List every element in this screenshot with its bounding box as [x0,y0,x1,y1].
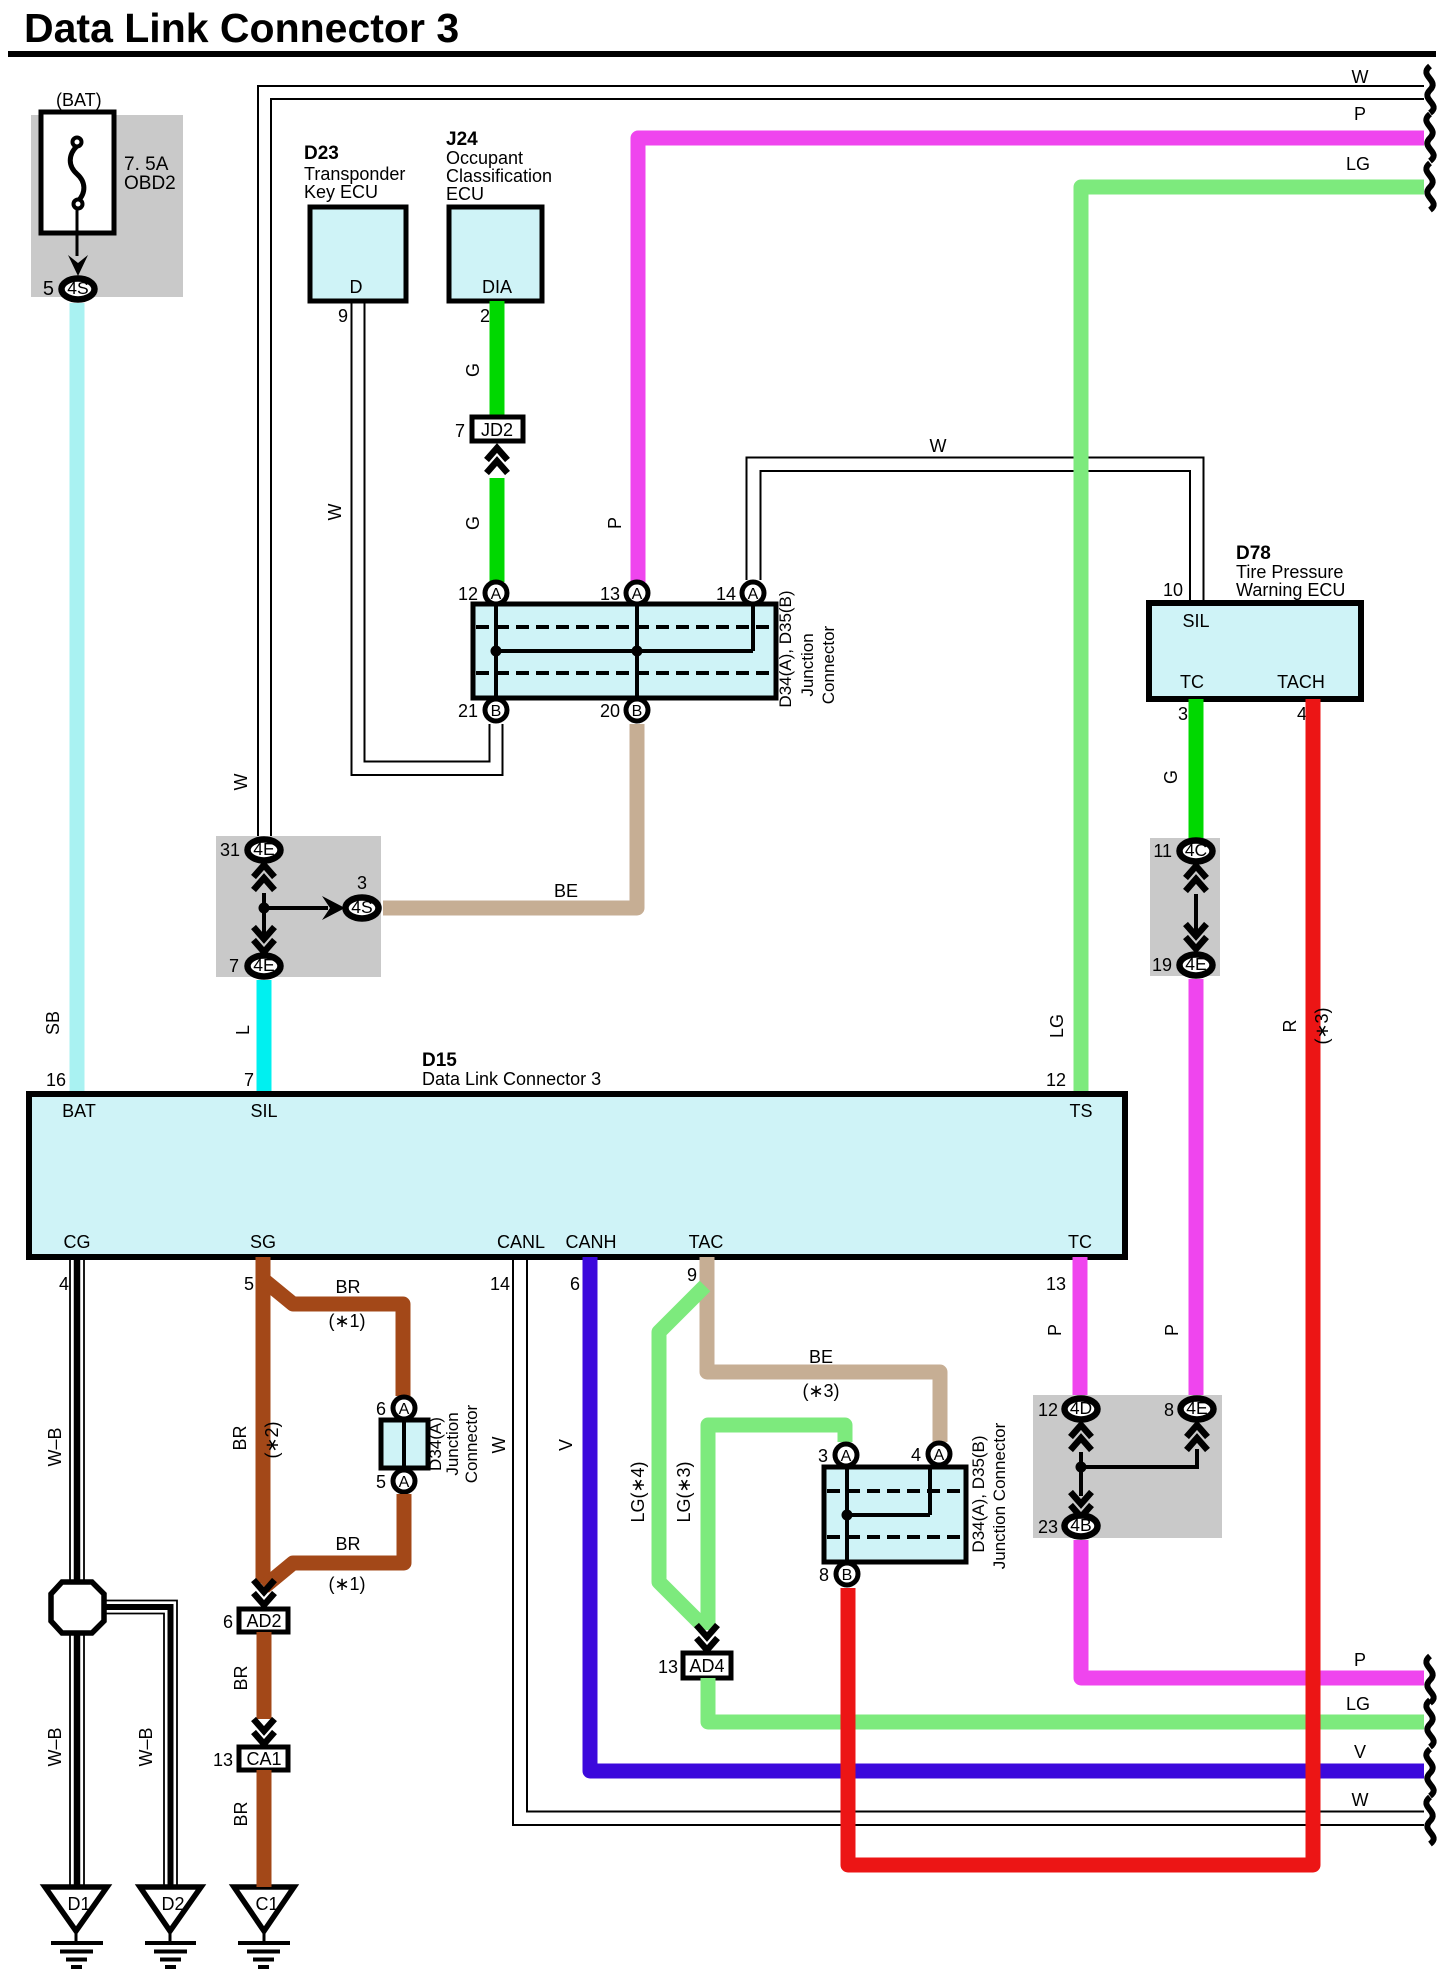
connector oval 4S pin 5 [62,279,95,300]
svg-text:TS: TS [1069,1101,1092,1121]
svg-text:10: 10 [1163,580,1183,600]
svg-text:12: 12 [1046,1070,1066,1090]
svg-text:Classification: Classification [446,166,552,186]
arrowhead down [68,255,88,276]
svg-text:3: 3 [357,873,367,893]
svg-text:5: 5 [244,1274,254,1294]
chevron arrows down to 4B [1071,1492,1092,1517]
svg-text:A: A [841,1448,852,1465]
continuation squiggle W top [1426,66,1433,113]
junction connector D34(A) small box [381,1420,428,1468]
connector oval 4E pin 7 [248,956,281,977]
gray connector box left (4E/4S/4E) [216,836,381,977]
internal wire horizontal with arrow to 4S [264,906,328,910]
junction connector D34(A) pin 6 A [393,1397,415,1419]
ground D2 [140,1887,201,1931]
svg-text:L: L [233,1025,253,1035]
wire SB (BAT to D15) [70,303,85,1094]
wire P (4E pin 19 down to 4E pin 8) [1189,979,1204,1396]
svg-text:6: 6 [570,1274,580,1294]
svg-text:6: 6 [376,1399,386,1419]
svg-text:4E: 4E [253,955,274,975]
connector oval 4B pin 23 [1065,1516,1098,1537]
svg-text:D: D [350,277,363,297]
svg-text:12: 12 [1038,1400,1058,1420]
wire BE (junction pin 20 B to connector 4S) [383,724,637,908]
svg-text:BE: BE [809,1347,833,1367]
svg-text:20: 20 [600,701,620,721]
svg-text:5: 5 [376,1472,386,1492]
svg-text:4D: 4D [1070,1398,1092,1418]
svg-text:TAC: TAC [689,1232,724,1252]
svg-text:BAT: BAT [62,1101,96,1121]
fuse element [70,146,84,201]
splice octagon [51,1582,104,1633]
wire W (junction pin 14 A to D78 pin 10, double line) [747,458,1204,604]
chevron arrows up below 4E [1187,1425,1208,1450]
svg-text:D1: D1 [67,1894,90,1914]
pin 20 B [626,699,648,721]
wire W (D23 pin 9 to junction pin 21 B, double line) [352,301,503,775]
connector oval 4E pin 8 [1181,1399,1214,1420]
svg-text:P: P [605,517,625,529]
continuation squiggle P top [1426,114,1433,161]
svg-text:D23: D23 [304,143,339,164]
svg-text:(∗3): (∗3) [1312,1007,1332,1044]
svg-text:Junction: Junction [798,633,817,696]
wire LG(*3) (junction pin 3 A to AD4) [708,1425,845,1630]
chevron arrows up [254,865,275,890]
wire fuse to connector 4S [76,209,79,256]
svg-text:7: 7 [229,956,239,976]
svg-text:Tire Pressure: Tire Pressure [1236,562,1343,582]
svg-text:B: B [842,1567,853,1584]
svg-text:Connector: Connector [462,1404,481,1483]
svg-text:LG: LG [1346,1694,1370,1714]
svg-text:A: A [399,1401,410,1418]
title underline [8,51,1436,57]
svg-text:LG: LG [1047,1014,1067,1038]
svg-text:BR: BR [231,1801,251,1826]
svg-text:A: A [399,1474,410,1491]
svg-text:D78: D78 [1236,543,1271,564]
svg-text:6: 6 [223,1612,233,1632]
svg-text:(∗3): (∗3) [802,1381,839,1401]
svg-text:4B: 4B [1070,1515,1091,1535]
svg-text:Junction: Junction [443,1412,462,1475]
svg-text:13: 13 [213,1750,233,1770]
svg-text:AD2: AD2 [246,1611,281,1631]
svg-text:A: A [632,586,643,603]
svg-text:4: 4 [911,1445,921,1465]
svg-text:4E: 4E [1185,954,1206,974]
svg-text:SB: SB [43,1011,63,1035]
wire P (D15 TC down to 4D pin 12) [1073,1257,1088,1396]
svg-text:JD2: JD2 [481,420,513,440]
svg-text:W: W [231,774,251,791]
svg-text:Key ECU: Key ECU [304,182,378,202]
svg-text:14: 14 [490,1274,510,1294]
pin 4 A [928,1443,950,1465]
continuation squiggle LG top [1426,163,1433,210]
pin 12 A [485,582,507,604]
svg-text:DIA: DIA [482,277,512,297]
internal wires [1079,1452,1083,1496]
svg-text:19: 19 [1152,955,1172,975]
svg-text:(∗2): (∗2) [262,1421,282,1458]
junction connector D34(A),D35(B) top [473,604,776,698]
svg-text:7: 7 [244,1070,254,1090]
svg-text:4S: 4S [67,278,88,298]
svg-text:Warning ECU: Warning ECU [1236,580,1345,600]
svg-text:8: 8 [819,1565,829,1585]
svg-text:LG(∗3): LG(∗3) [674,1461,694,1522]
svg-text:R: R [1280,1020,1300,1033]
svg-text:W: W [325,504,345,521]
svg-text:AD4: AD4 [689,1656,724,1676]
svg-text:4E: 4E [1186,1398,1207,1418]
svg-text:7. 5A: 7. 5A [124,154,169,175]
connector JD2 pin 7 [472,417,523,441]
svg-text:P: P [1354,104,1366,124]
continuation squiggle LG bottom [1426,1700,1433,1747]
wire L (4E pin 7 to D15 SIL) [257,980,272,1094]
svg-text:P: P [1162,1324,1182,1336]
svg-text:J24: J24 [446,129,478,150]
svg-text:TACH: TACH [1277,672,1325,692]
chevron arrows down to AD4 [697,1625,718,1650]
svg-text:Transponder: Transponder [304,164,405,184]
pin 14 A [742,582,764,604]
svg-text:9: 9 [338,306,348,326]
wire V (D15 CANH to right edge) [590,1257,1424,1771]
svg-text:G: G [1161,770,1181,784]
svg-text:7: 7 [455,421,465,441]
connector AD4 pin 13 [683,1653,731,1678]
chevron arrows down [1186,924,1207,949]
internal pin lines [845,1467,849,1562]
connector oval 4E pin 19 [1180,955,1213,976]
svg-text:B: B [491,703,502,720]
connector oval 4C pin 11 [1180,841,1213,862]
svg-text:OBD2: OBD2 [124,173,176,194]
svg-text:C1: C1 [255,1894,278,1914]
node junction dot [259,903,270,914]
gray connector box right (4C/4E) [1150,838,1220,976]
wire G (J24 pin 2 to JD2) [490,301,505,417]
fuse 7.5A OBD2 body [41,112,114,233]
svg-text:4S: 4S [351,897,372,917]
ground C1 [234,1887,294,1931]
svg-text:(∗1): (∗1) [328,1311,365,1331]
svg-text:V: V [556,1439,576,1451]
svg-text:W: W [1352,1790,1369,1810]
svg-text:31: 31 [220,840,240,860]
ground D1 [45,1887,107,1931]
svg-text:16: 16 [46,1070,66,1090]
svg-text:4E: 4E [253,839,274,859]
dashed internal lines [476,625,773,629]
svg-text:A: A [491,586,502,603]
connector CA1 pin 13 [239,1747,288,1770]
svg-text:Data Link Connector 3: Data Link Connector 3 [24,5,459,51]
svg-text:V: V [1354,1742,1366,1762]
fuse block shading [31,115,183,297]
connector AD2 pin 6 [239,1609,288,1632]
chevron arrows up [1186,866,1207,891]
wire P (top, right edge to junction pin 13) [638,138,1424,596]
svg-text:2: 2 [480,306,490,326]
chevron arrows up below 4D [1071,1425,1092,1450]
svg-text:W: W [930,436,947,456]
svg-text:14: 14 [716,584,736,604]
svg-text:A: A [934,1447,945,1464]
svg-text:Junction Connector: Junction Connector [990,1422,1009,1569]
svg-text:12: 12 [458,584,478,604]
svg-text:23: 23 [1038,1517,1058,1537]
gray connector box bottom right (4D/4E/4B) [1033,1395,1222,1538]
svg-text:Data Link Connector 3: Data Link Connector 3 [422,1069,601,1089]
wire W-B (octagon to ground D1) [69,1633,71,1887]
connector oval 4S pin 3 [346,898,379,919]
svg-text:BR: BR [231,1665,251,1690]
wire G (D78 TC to connector 4C) [1189,699,1204,840]
svg-text:D34(A), D35(B): D34(A), D35(B) [969,1435,988,1552]
svg-text:A: A [748,586,759,603]
svg-text:D2: D2 [161,1894,184,1914]
internal bus line [496,649,753,653]
chevron arrows down to CA1 [254,1719,275,1744]
svg-text:SIL: SIL [1182,611,1209,631]
svg-text:4: 4 [1297,704,1307,724]
internal wire vertical [262,893,266,940]
svg-text:11: 11 [1153,841,1172,861]
svg-text:P: P [1045,1324,1065,1336]
svg-text:LG: LG [1346,154,1370,174]
svg-text:D15: D15 [422,1050,457,1071]
svg-text:BR: BR [335,1277,360,1297]
internal wire [1194,894,1198,938]
pin 8 B [836,1563,858,1585]
pin 13 A [626,582,648,604]
svg-text:13: 13 [658,1657,678,1677]
svg-text:G: G [463,516,483,530]
continuation squiggle V bottom [1426,1749,1433,1796]
wire BR main (D15 SG down to AD2) [256,1257,271,1583]
pin 3 A [835,1444,857,1466]
svg-text:BR: BR [230,1425,250,1450]
internal pin lines [494,604,498,698]
wire W (D15 CANL to right edge, double line) [513,1257,1424,1825]
svg-text:Occupant: Occupant [446,148,523,168]
wire R (*3) (D78 TACH down, across, up to junction pin 8 B) [848,699,1313,1865]
svg-text:CANH: CANH [565,1232,616,1252]
svg-text:W–B: W–B [45,1427,65,1466]
pin 21 B [485,699,507,721]
svg-text:SIL: SIL [250,1101,277,1121]
svg-text:P: P [1354,1650,1366,1670]
svg-text:SG: SG [250,1232,276,1252]
svg-text:Connector: Connector [819,625,838,704]
continuation squiggle W bottom [1426,1797,1433,1844]
svg-text:BE: BE [554,881,578,901]
junction connector D34(A),D35(B) bottom [824,1467,966,1562]
svg-text:G: G [463,363,483,377]
svg-text:W: W [489,1437,509,1454]
wire LG (AD4 to right edge) [708,1678,1424,1722]
wire BE (*3) (D15 TAC to junction pin 4 A) [707,1257,940,1442]
wire BR branch upper (*1) to junction A pin 6 [265,1281,403,1396]
svg-text:3: 3 [1178,704,1188,724]
svg-text:13: 13 [600,584,620,604]
svg-text:BR: BR [335,1534,360,1554]
continuation squiggle P bottom [1426,1656,1433,1703]
wire LG(*4) (TAC branch down to AD4) [659,1286,705,1628]
svg-text:8: 8 [1164,1400,1174,1420]
svg-text:CG: CG [64,1232,91,1252]
svg-text:(∗1): (∗1) [328,1574,365,1594]
svg-text:9: 9 [687,1265,697,1285]
chevron arrows down [254,927,275,952]
chevron arrows down to AD2 [254,1580,275,1605]
chevron arrows below JD2 [487,448,508,473]
svg-text:W: W [1352,67,1369,87]
svg-text:4C: 4C [1185,840,1207,860]
wire BR (CA1 to ground C1) [257,1770,272,1887]
svg-text:CA1: CA1 [246,1749,281,1769]
wire W-B (D15 CG to octagon, triple line) [69,1257,71,1584]
svg-text:CANL: CANL [497,1232,545,1252]
connector oval 4E pin 31 [248,840,281,861]
svg-text:(BAT): (BAT) [56,90,102,110]
dashed internal lines [827,1489,963,1493]
wire G (JD2 to junction pin 12 A) [490,478,505,582]
connector oval 4D pin 12 [1065,1399,1098,1420]
svg-text:13: 13 [1046,1274,1066,1294]
svg-text:TC: TC [1068,1232,1092,1252]
wire W top (right edge to gray junction box, double line) [258,86,1424,838]
svg-text:B: B [632,703,643,720]
svg-text:LG(∗4): LG(∗4) [628,1461,648,1522]
wire BR branch lower (*1) back to main [264,1494,404,1587]
svg-text:W–B: W–B [45,1727,65,1766]
wire LG (top, right edge down to D15 pin TS) [1081,187,1424,1094]
svg-text:21: 21 [458,701,478,721]
wire P (4B down to right edge) [1081,1540,1424,1678]
svg-text:4: 4 [59,1274,69,1294]
junction connector D34(A) pin 5 A [393,1470,415,1492]
wire W-B branch (octagon to ground D2, triple line) [106,1601,177,1888]
svg-text:5: 5 [43,278,54,300]
wire BR (AD2 to CA1) [257,1632,272,1719]
svg-text:W–B: W–B [136,1727,156,1766]
svg-text:TC: TC [1180,672,1204,692]
svg-text:D34(A), D35(B): D34(A), D35(B) [776,590,795,707]
internal bus line [847,1513,930,1517]
svg-text:3: 3 [818,1446,828,1466]
svg-text:ECU: ECU [446,184,484,204]
